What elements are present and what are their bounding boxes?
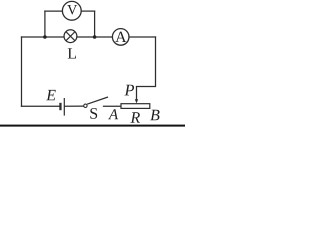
label L	[68, 48, 76, 58]
bottom border line	[0, 125, 185, 127]
battery E negative plate (short thick)	[59, 103, 61, 110]
junction node right	[93, 35, 97, 39]
wire main line left segment	[22, 36, 65, 38]
wire main line lamp-to-ammeter segment	[77, 36, 113, 38]
wire bottom-left to battery	[22, 105, 60, 107]
wire voltmeter branch right vertical	[94, 11, 96, 37]
ammeter A	[112, 29, 129, 46]
label R	[130, 112, 140, 122]
wire main line ammeter-to-corner segment	[129, 36, 156, 38]
rheostat R body	[121, 104, 150, 109]
label B (rheostat right terminal)	[150, 110, 159, 121]
switch S pivot circle	[84, 104, 87, 107]
rheostat slider P arrow	[135, 87, 138, 104]
label P	[124, 85, 134, 96]
wire left vertical	[21, 37, 23, 106]
switch S lever	[87, 97, 108, 104]
wire top-right horizontal (voltmeter branch right)	[81, 10, 95, 12]
wire battery to switch	[65, 105, 84, 107]
label E	[46, 90, 56, 100]
battery E positive plate (long thin)	[63, 98, 65, 116]
wire voltmeter branch left vertical	[44, 11, 46, 37]
wire right vertical from ammeter to slider	[137, 37, 156, 87]
label S	[90, 108, 97, 119]
junction node left	[43, 35, 47, 39]
wire switch to rheostat terminal A	[104, 105, 122, 107]
label A (rheostat left terminal)	[108, 109, 118, 119]
voltmeter V	[62, 1, 81, 20]
lamp L	[64, 30, 77, 43]
wire top-left horizontal (voltmeter branch left)	[45, 10, 63, 12]
